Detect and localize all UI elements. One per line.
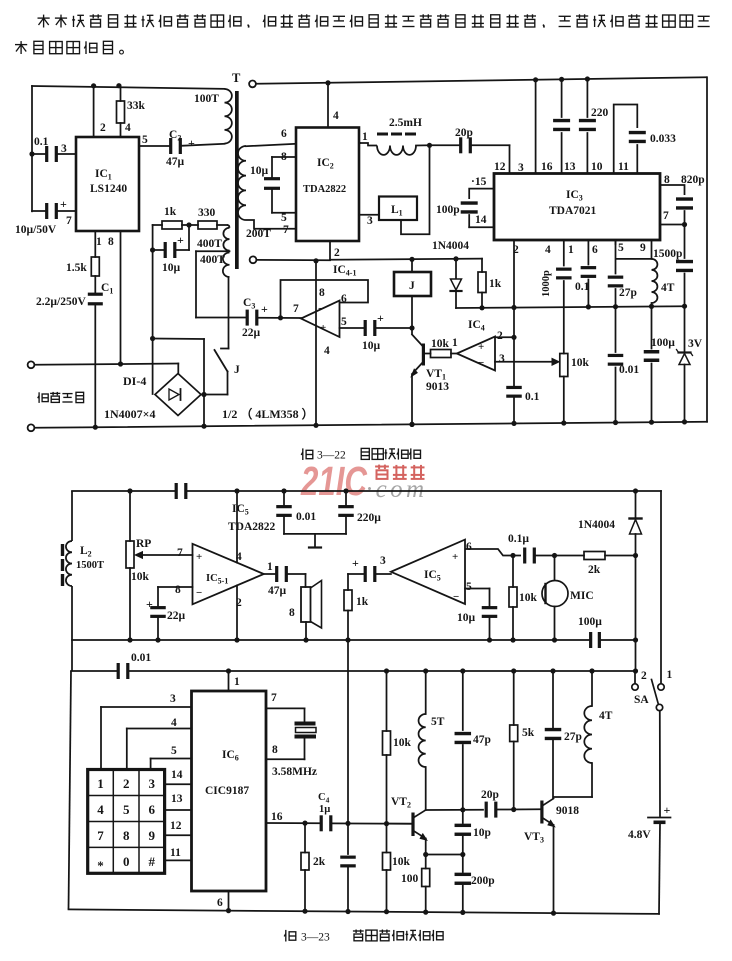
label plus IC4 [478,341,484,353]
svg-text:22µ: 22µ [242,327,261,339]
resistor 5k [510,671,518,810]
svg-text:+: + [261,302,268,316]
capacitor series in top rail [175,483,188,499]
svg-text:·cοm: ·cοm [366,476,424,503]
svg-text:5: 5 [281,212,287,224]
label VT2 [391,796,411,810]
svg-text:0.1: 0.1 [34,136,49,148]
op-amp IC2 TDA2822 box [296,128,359,242]
svg-text:2: 2 [497,330,503,342]
label pin8 IC1 [108,236,114,248]
svg-text:2: 2 [334,247,340,259]
svg-text:LS1240: LS1240 [90,183,127,195]
wire rail 671 [71,670,636,672]
terminal T3 circle [250,256,257,263]
node RP top rail [127,488,132,493]
wire IC6 pin5 keypad col3 [151,759,192,770]
node unlabeled cap bottom [345,909,350,914]
svg-text:220: 220 [591,107,609,119]
label pin16 IC3 [541,161,553,173]
svg-text:1: 1 [362,131,368,143]
svg-text:−: − [318,303,324,315]
capacitor 20p IF [430,137,510,173]
label minus IC5 [453,591,459,603]
label pin3 IC2 [367,215,373,227]
svg-text:220µ: 220µ [357,512,381,524]
node pin4 top rail [234,488,239,493]
wire common gnd stub [284,534,346,548]
diode zener 3V [677,306,693,422]
svg-text:8: 8 [272,744,278,756]
caption fig 3-23 [284,930,443,944]
svg-text:4: 4 [333,110,339,122]
node 1500p mid rail [682,304,687,309]
label 1k [164,206,177,218]
label 2.2µ/250V [36,296,86,308]
wire VT3 emitter down [553,825,555,913]
terminal antenna circle [249,81,256,88]
capacitor 10p [455,810,472,855]
switch SA contact2 [632,684,638,690]
label pin4 IC51 [236,551,242,563]
label pin8 IC6 [272,744,278,756]
wire SA2 drop [634,671,636,684]
wire VT1 collector [412,296,424,347]
capacitor 0.1 pin1 [581,240,597,307]
resistor 1k detector [478,259,486,308]
label 0.01 rail671 [131,652,151,664]
label TDA7021 [549,205,597,217]
node junction top rail at IC2 pin4 [325,80,330,85]
wire IC4 pin2 [495,336,514,338]
wire IC51 pin4 [236,491,238,563]
label pin11 IC3 [618,161,629,173]
svg-text:1µ: 1µ [319,804,330,815]
svg-text:100µ: 100µ [578,616,602,628]
label 10k RP [131,571,150,583]
svg-text:6: 6 [592,244,598,256]
terminal phone line upper circle [28,361,35,368]
svg-text:7: 7 [283,224,289,236]
label + mic cap [352,556,359,570]
wire IC2pin2-T3 terminal [257,259,331,261]
label 2.5mH [389,117,422,129]
wire phone terminal line [35,364,179,365]
svg-text:+: + [60,197,67,211]
label 3V [688,338,703,350]
wire emitter cross link [426,854,463,856]
label pin2 IC2 [334,247,340,259]
svg-text:2k: 2k [313,856,326,868]
svg-text:4: 4 [545,244,551,256]
caption fig 3-22 [301,448,420,461]
label pin7 IC3 [663,210,669,222]
wire relay bottom to VT1 [411,296,413,334]
svg-text:−: − [453,591,459,603]
svg-text:3: 3 [149,776,156,791]
wire VT2 base [387,823,412,825]
battery 4.8V [648,818,671,825]
svg-text:100T: 100T [194,93,219,105]
svg-text:10µ/50V: 10µ/50V [15,224,57,236]
label pin4 IC6 [171,717,177,729]
svg-text:12: 12 [170,820,182,832]
svg-text:10k: 10k [519,592,538,604]
label 47µ [166,156,185,168]
paragraph line 2 [15,41,123,54]
wire IC4 pin3 arrow [495,358,559,365]
inductor 4T b [554,671,593,797]
label + of 10µ out [377,311,384,325]
svg-text:TDA2822: TDA2822 [228,521,276,533]
svg-text:10p: 10p [473,827,491,839]
svg-text:400T: 400T [200,254,225,266]
node junction top rail pin13 [559,77,564,82]
label pin5 IC2 [281,212,287,224]
label LS1240 [90,183,127,195]
wire IC2 pin2 down [329,241,331,260]
svg-text:10µ: 10µ [250,165,269,177]
watermark dianziwang [375,465,424,480]
svg-text:20p: 20p [455,127,473,139]
wire VT3 emitter [542,818,555,827]
label IC5 top [232,503,249,517]
node 10k mic bottom [510,637,515,642]
label VT1 [426,368,446,382]
label pin6 IC5 [466,541,472,553]
watermark 21IC [300,458,368,504]
wire VT2 collector [413,810,426,818]
label 1.5k [66,262,87,274]
label 9018 [556,805,579,817]
svg-text:12: 12 [494,161,506,173]
svg-text:47µ: 47µ [166,156,185,168]
label 10k bias upper [393,737,412,749]
svg-text:100µ: 100µ [651,337,675,349]
wire IC3 pin2 column [513,240,515,423]
svg-text:27p: 27p [619,287,637,299]
label pin5 IC41 [341,316,347,328]
node C3 feedback [278,315,283,320]
svg-text:9: 9 [149,828,156,843]
label 1N4004 top [432,240,469,252]
label 10µ IC2 [250,165,269,177]
svg-text:+: + [320,322,326,334]
label pin8 IC2 [281,151,287,163]
svg-text:200T: 200T [246,228,271,240]
node diode 2k [633,553,638,558]
label pin5 IC5 [466,581,472,593]
label 0.1µ [508,533,529,545]
svg-text:J: J [234,364,240,376]
capacitor 1500p [676,225,693,307]
wire IC5 pin6 out [465,549,521,556]
label pin7 IC6 [271,692,277,704]
wire VT2 emitter [413,831,427,841]
label 0.1 pin1 [575,281,590,293]
capacitor 0.033 pin11 bracket [614,105,646,174]
speaker [301,581,322,629]
label 22µ b [167,610,186,622]
svg-text:4T: 4T [599,710,613,722]
svg-text:8: 8 [175,584,181,596]
svg-text:0: 0 [123,854,130,869]
node C4 1k-col [345,821,350,826]
label pin8 IC3 [664,174,670,186]
svg-text:0.01: 0.01 [296,511,316,523]
label 2k charge [588,564,601,576]
node 10µ bottom [487,637,492,642]
label 1500p [653,248,682,260]
svg-text:+: + [664,803,671,817]
label 22µ [242,327,261,339]
label plus IC51 [196,551,202,563]
svg-text:1500p: 1500p [653,248,682,260]
node rail671 end [633,668,638,673]
label pin1 IC2 [362,131,368,143]
label 5T [431,716,445,728]
node C4 10k bias [384,821,389,826]
node pin2 bottom [234,637,239,642]
label J switch [234,364,240,376]
label L2 [80,545,92,559]
label plus IC5 [452,551,458,563]
label 47p [473,734,491,746]
label pin7 IC51 [177,547,183,559]
svg-text:9: 9 [640,242,646,254]
node bridge drop bottom [201,424,206,429]
node mic bottom [552,637,557,642]
node pin6 bottom rail [226,908,231,913]
resistor 10k base [425,350,457,358]
svg-text:+: + [196,551,202,563]
svg-text:11: 11 [618,161,629,173]
node pin7-820p [682,222,687,227]
wire IC2 pin1 [359,143,377,146]
svg-text:3: 3 [367,215,373,227]
svg-text:7: 7 [663,210,669,222]
wire left boundary [69,491,73,909]
label 0.033 [650,133,676,145]
label IC3 [566,189,583,203]
capacitor 100µ [644,306,660,422]
node hook 10µ tap [150,247,155,252]
wire IC1 pin2 to rail [93,86,95,137]
svg-text:14: 14 [475,214,487,226]
node rail pin2 [91,83,96,88]
label 820p [681,174,705,186]
svg-text:+: + [377,311,384,325]
wire VT1 emitter down [411,375,413,424]
svg-text:5: 5 [618,242,624,254]
label MIC [570,590,594,602]
node 100µ rail640 [633,637,638,642]
svg-text:100p: 100p [436,204,460,216]
svg-text:27p: 27p [564,731,582,743]
svg-text:8: 8 [664,174,670,186]
capacitor 20p b [485,802,541,818]
label IC4 [468,319,485,333]
capacitor 100p pins15-14 [461,189,494,228]
label pin1 IC6 [234,676,240,688]
node 20p 5k [511,807,516,812]
svg-text:4: 4 [125,122,131,134]
svg-text:3: 3 [61,143,67,155]
label pin7 IC1 [66,215,72,227]
node mic top [552,553,557,558]
node pin4 bottom rail [561,420,566,425]
wire bottom schematic top rail [72,490,661,492]
capacitor 820p pin8 [660,185,693,225]
svg-text:2k: 2k [588,564,601,576]
label IC4-1 [333,264,356,278]
resistor 33k [117,86,125,137]
label pin1 IC3 [568,244,574,256]
label RP [136,538,151,550]
capacitor 100µ series [589,632,601,648]
label + of C3 [261,302,268,316]
node pin1 mid rail [586,304,591,309]
label IC6 [222,749,239,763]
capacitor 220µ hang [338,491,354,534]
svg-text:47p: 47p [473,734,491,746]
wire top-left rail [32,86,225,89]
diode 1N4004 bottom [630,491,642,556]
svg-text:13: 13 [171,793,183,805]
label pin3 IC5 [380,555,386,567]
svg-text:4: 4 [171,717,177,729]
inductor L1 box [379,197,417,221]
label 1k mic [356,596,369,608]
node pin8 phone line [118,361,123,366]
wire RP wiper arrow [135,552,192,559]
inductor 2.5mH coil [377,146,416,155]
label pin6 IC41 [341,293,347,305]
inductor 100T primary [225,89,232,144]
svg-text:13: 13 [564,161,576,173]
svg-text:0.01: 0.01 [131,652,151,664]
wire hookswitch tick [221,348,229,350]
label 5k [522,727,535,739]
wire IC1 pin8 down [120,231,122,364]
svg-text:8: 8 [289,607,295,619]
node long drop bottom rail [313,423,318,428]
resistor 10k bias [383,671,391,912]
wire right rail [706,77,708,422]
node C4 2k [302,821,307,826]
resistor 100 [422,869,430,913]
svg-text:7: 7 [66,215,72,227]
capacitor 0.1 on pin2 [506,386,522,398]
label TDA2822 b [228,521,276,533]
wire left rail [31,86,33,211]
wire VT1 emitter [411,362,423,377]
svg-text:4.8V: 4.8V [628,829,651,841]
node emitter junction [423,852,428,857]
node junction top rail pin16 [533,77,538,82]
svg-text:5: 5 [171,745,177,757]
wire bottom schematic bottom rail [69,909,660,914]
capacitor 10µ IC41 out [340,320,413,336]
svg-text:1000p: 1000p [541,270,552,297]
wire IC6 pin13 row2 [165,809,192,811]
label pin3 IC1 [61,143,67,155]
wire L1 loop [401,145,430,234]
svg-text:1/2 （ 4LM358 ）: 1/2 （ 4LM358 ） [222,406,314,421]
label 200p [471,875,495,887]
label pin8 IC41 [319,287,325,299]
op-amp IC5 triangle [391,540,465,604]
node zener bottom rail [682,419,687,424]
node C1 bottom rail [93,425,98,430]
wire VT3 collector [542,799,554,807]
label 100p [436,204,460,216]
capacitor mic coupling [364,566,391,582]
svg-text:2: 2 [100,122,106,134]
svg-text:0.033: 0.033 [650,133,676,145]
label 100µ [651,337,675,349]
svg-text:+: + [352,556,359,570]
node 22µ bottom [155,637,160,642]
label 3.58MHz [272,766,317,778]
crystal 3.58MHz [266,708,316,759]
wire IC2 pin7 to 200T [246,220,296,229]
svg-text:7: 7 [177,547,183,559]
resistor 330 [189,221,217,229]
wire hook top link [153,338,204,341]
label 1N4007x4 [104,407,156,421]
paragraph line 1 [38,14,710,27]
label half LM358 [222,406,314,421]
svg-text:5: 5 [466,581,472,593]
node hook bridge tap [150,336,155,341]
svg-text:7: 7 [293,303,299,315]
label 0.1 pin2 [525,391,540,403]
label 4T [661,282,675,294]
keypad outer box [88,770,165,874]
wire IC6 pin1 [228,671,230,691]
svg-text:330: 330 [198,207,216,219]
diode 1N4004 top [451,259,462,308]
svg-text:3.58MHz: 3.58MHz [272,766,317,778]
label IC1 [95,168,112,182]
svg-text:6: 6 [466,541,472,553]
wire IC6 pin11 row4 [165,859,192,861]
capacitor C2 47µ [139,138,225,154]
wire 2.5mH to 20p [416,144,430,146]
wire diode col to rail640 [635,556,637,641]
label IC2 [317,157,334,171]
wire IC3 pin7 [660,224,685,226]
op-amp IC4 triangle [457,337,495,371]
label 10µ [162,262,181,274]
keypad digits [97,776,155,873]
wire IC6 pin12 row3 [165,834,192,836]
inductor 200T secondary [238,146,246,220]
label L1 [391,204,403,218]
label 10k bias lower [392,856,411,868]
node 0.01 bottom rail [613,420,618,425]
label pin5 IC3 [618,242,624,254]
svg-text:3—23: 3—23 [301,932,330,944]
svg-text:21IC: 21IC [300,458,368,504]
label pin2 IC1 [100,122,106,134]
node bottom rail VT1 [409,422,414,427]
wire 400T tap to C3 [196,251,230,317]
label pin2 IC51 [236,597,242,609]
node collector 47p-10p col [460,807,465,812]
node IC4 pin2 [511,335,516,340]
